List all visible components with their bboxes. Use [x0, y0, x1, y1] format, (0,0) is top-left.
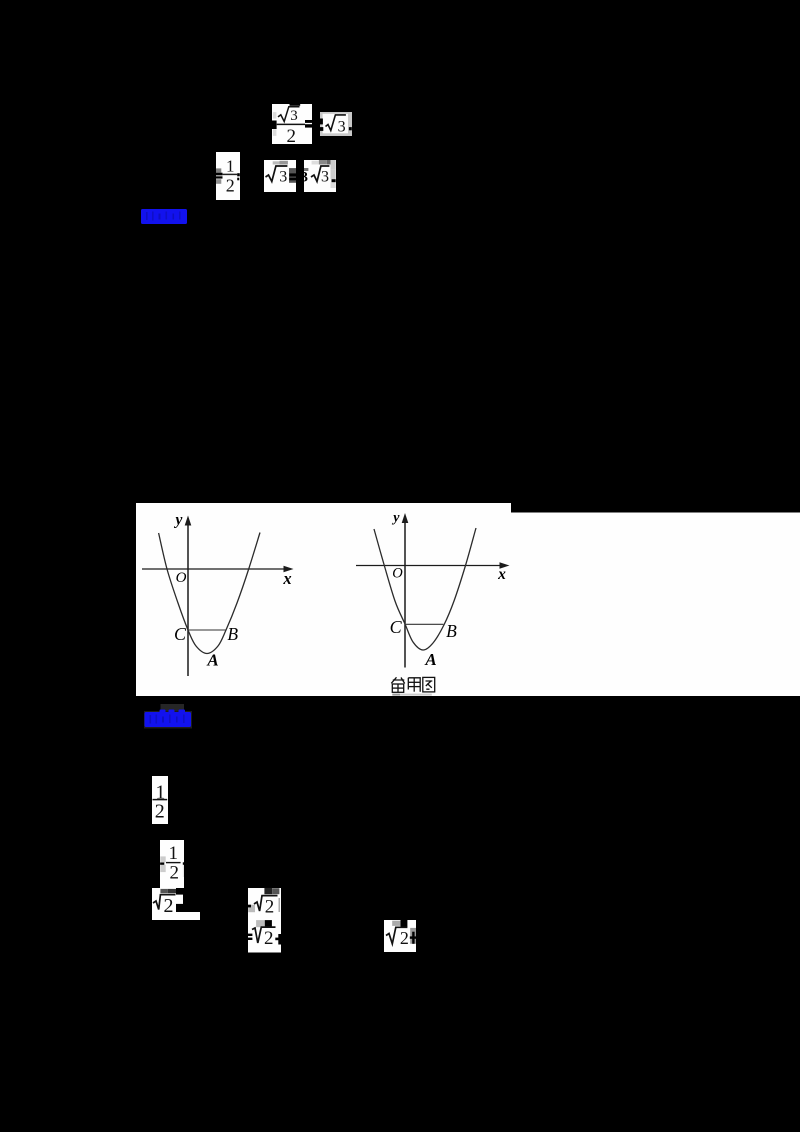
- svg-text:1: 1: [226, 156, 235, 175]
- svg-text:3: 3: [279, 168, 287, 185]
- formula image: sqrt(3) second line left: [264, 160, 296, 192]
- white background right part (starts lower): [511, 513, 800, 697]
- formula image: sqrt(2) with blank strip: [152, 888, 200, 920]
- svg-text:2: 2: [169, 862, 179, 883]
- caption yong (use) glyph: [408, 678, 420, 692]
- svg-text:2: 2: [287, 126, 297, 144]
- graph 2: x-axis: [356, 565, 501, 567]
- formula image: sqrt(3)/2 fraction: [272, 104, 312, 144]
- svg-text:A: A: [206, 651, 218, 670]
- graph 2: chord CB: [406, 623, 444, 625]
- formula image: sqrt(3) first line: [320, 112, 352, 136]
- svg-text:A: A: [424, 650, 436, 669]
- graph 1: parabola curve: [159, 533, 260, 654]
- formula image: 1/2 fraction second line: [216, 152, 240, 200]
- white background left part: [136, 503, 511, 696]
- graph 1: y-axis arrowhead: [185, 516, 192, 526]
- svg-text:y: y: [391, 510, 400, 525]
- svg-text:2: 2: [400, 928, 409, 948]
- graph 2: y-axis arrowhead: [402, 513, 409, 523]
- svg-text:2: 2: [164, 895, 174, 917]
- svg-text:x: x: [497, 566, 506, 583]
- graph 2: x-axis arrowhead: [500, 562, 510, 569]
- graph 1: x-axis: [142, 568, 285, 570]
- svg-text:C: C: [390, 617, 403, 637]
- white figure block with two parabola graphs: [136, 503, 800, 696]
- blue highlighted label 1: [141, 209, 187, 224]
- blue highlighted label 2 with dark-gray highlight box: [143, 703, 195, 730]
- svg-text:1: 1: [169, 843, 179, 864]
- svg-text:2: 2: [226, 176, 235, 196]
- svg-text:3: 3: [321, 168, 329, 185]
- svg-text:y: y: [174, 511, 183, 528]
- svg-text:2: 2: [155, 801, 165, 823]
- graph 1: chord CB: [188, 629, 226, 631]
- svg-text:O: O: [392, 565, 403, 581]
- svg-text:C: C: [174, 624, 187, 644]
- svg-text:O: O: [176, 570, 187, 586]
- svg-text:3: 3: [338, 118, 346, 135]
- graph 1: y-axis: [187, 524, 189, 676]
- svg-text:3: 3: [304, 170, 308, 186]
- svg-text:B: B: [446, 621, 457, 641]
- graph 2: y-axis: [404, 522, 406, 668]
- formula image: sqrt(2)+ right: [384, 920, 417, 952]
- formula image: stacked sqrt(2) and =sqrt(2)+: [247, 887, 284, 953]
- svg-text:x: x: [282, 569, 291, 588]
- svg-text:B: B: [227, 624, 238, 644]
- formula image: 1/2 fraction lower section: [152, 776, 168, 824]
- caption tu (figure) glyph: [423, 677, 435, 692]
- caption bei (spare) glyph: [391, 677, 404, 692]
- svg-text:2: 2: [264, 928, 274, 949]
- svg-text:2: 2: [265, 897, 275, 918]
- gray smudge under caption: [392, 694, 400, 696]
- graph 2: parabola curve: [374, 528, 476, 650]
- graph 1: x-axis arrowhead: [284, 566, 294, 573]
- svg-text:3: 3: [290, 108, 298, 124]
- formula image: -1/2 fraction lower section: [160, 840, 184, 888]
- formula image: sqrt(3) second line right: [304, 160, 336, 192]
